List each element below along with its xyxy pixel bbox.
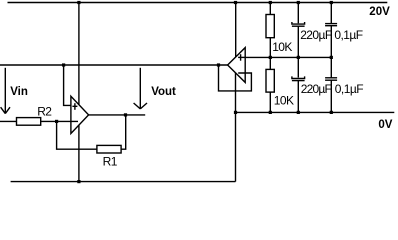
wire feedback via R1 (57, 121, 97, 149)
resistor R1 (97, 145, 121, 153)
wire divider mid rail to U2 + input (245, 56, 332, 58)
wire 10K R3 bottom stub (269, 38, 271, 58)
svg-text:R1: R1 (103, 155, 118, 169)
wire top 20V rail (8, 2, 388, 4)
node junction top rail 220uF C1 (297, 1, 300, 4)
capacitor C1 220uF upper (292, 3, 305, 58)
svg-text:20V: 20V (369, 6, 390, 18)
wire 10K R3 top stub (269, 3, 271, 15)
wire bottom supply return rail (11, 181, 236, 183)
wire U1 output (89, 114, 146, 116)
svg-text:220µF: 220µF (301, 82, 332, 96)
wire U1 + input bracket (64, 65, 71, 105)
svg-text:10K: 10K (272, 40, 292, 54)
wire U2 feedback loop (219, 65, 252, 91)
node junction 0V rail 220uF (297, 111, 300, 114)
op-amp U2 (228, 48, 246, 83)
node junction U2 supply at 0V rail (234, 111, 237, 114)
capacitor C2 0.1uF upper (325, 3, 337, 58)
node junction rail to U1 + input (62, 63, 65, 66)
node junction top rail 10K divider (269, 1, 272, 4)
svg-text:220µF: 220µF (300, 28, 332, 42)
wire U1 positive supply from top rail (78, 3, 80, 105)
wire U2 positive supply from top rail (235, 3, 237, 57)
wire virtual-ground rail (op-amp U2 output) (0, 64, 228, 66)
wire Vin input (0, 120, 17, 122)
arrow Vin (1, 68, 10, 114)
capacitor C3 220uF lower (292, 57, 305, 112)
arrow Vout (134, 68, 147, 109)
pin + of U1 (72, 103, 77, 110)
node junction top rail 0.1uF C2 (330, 1, 333, 4)
node junction top rail op-amp U2 supply (234, 1, 237, 4)
capacitor C4 0.1uF lower (325, 57, 337, 112)
op-amp U1 (71, 96, 89, 133)
svg-text:Vin: Vin (10, 86, 28, 98)
node junction top rail op-amp U1 supply (77, 1, 80, 4)
wire U1 negative supply to bottom rail (78, 125, 80, 181)
wire 0V rail (236, 111, 395, 113)
svg-text:0V: 0V (378, 119, 392, 131)
svg-text:0,1µF: 0,1µF (334, 28, 362, 42)
svg-text:R2: R2 (37, 105, 52, 119)
wire 10K R4 bottom stub (269, 92, 271, 112)
svg-text:Vout: Vout (151, 86, 176, 98)
node junction mid rail 0.1uF (330, 56, 333, 59)
node junction output feedback (124, 113, 127, 116)
node junction mid rail 10K (269, 56, 272, 59)
resistor R4 10K (266, 69, 274, 92)
node junction bottom rail U1 supply (77, 180, 80, 183)
wire R1 to output node (121, 115, 126, 149)
wire R2 to U1 - input (41, 120, 78, 122)
resistor R2 (17, 118, 41, 126)
node junction 0V rail 0.1uF (330, 111, 333, 114)
node junction mid rail 220uF (297, 56, 300, 59)
resistor R3 10K (266, 15, 274, 38)
node junction 0V rail 10K (269, 111, 272, 114)
svg-text:10K: 10K (274, 94, 294, 108)
pin + of U2 (238, 54, 245, 61)
node junction inverting input (55, 120, 58, 123)
node junction rail to U2 feedback (217, 63, 220, 66)
wire 10K R4 top stub (269, 57, 271, 69)
svg-text:0,1µF: 0,1µF (335, 82, 363, 96)
wire U2 negative supply down (235, 73, 237, 182)
